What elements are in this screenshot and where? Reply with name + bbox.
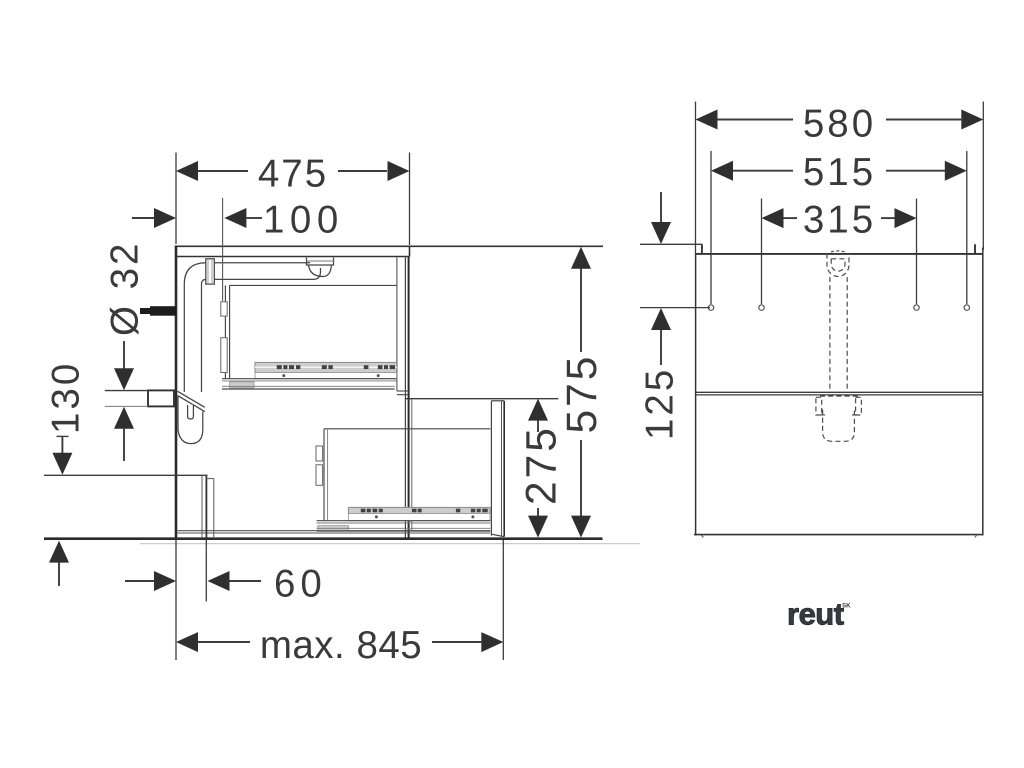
cabinet left wall [175, 246, 178, 540]
bottom connection box [202, 475, 214, 538]
svg-text:475: 475 [258, 153, 328, 196]
svg-text:515: 515 [803, 151, 876, 194]
pipe stub through wall [105, 391, 148, 407]
upper drawer bottom [222, 379, 397, 389]
lower drawer rail lower band [348, 514, 490, 521]
dim 100 outside arrow [132, 208, 176, 228]
horizontal drain pipe under counter [215, 263, 321, 280]
counter top line [176, 245, 603, 247]
upper drawer rail lower band [255, 373, 397, 379]
basin top reference line [640, 243, 703, 245]
front view top edge [696, 253, 984, 255]
dim 580 extension lines [696, 102, 984, 255]
svg-text:SK: SK [842, 603, 851, 610]
siphon inlet outer U [827, 254, 849, 277]
svg-text:315: 315 [803, 198, 876, 241]
svg-text:130: 130 [45, 361, 88, 434]
svg-text:60: 60 [274, 563, 327, 606]
trap connector slant [178, 391, 205, 411]
dim 475 extension lines [176, 153, 410, 246]
sink tailpiece fitting [307, 258, 334, 277]
drawer divider lines [696, 392, 983, 395]
dim 130 upper arrow [52, 436, 72, 474]
front view left edge [695, 254, 697, 536]
logo reut [787, 597, 851, 632]
upper drawer back clips [221, 302, 227, 373]
trap cup [178, 396, 203, 444]
dim Ø32 text [104, 241, 147, 336]
dim 125 lower arrow [651, 308, 671, 365]
carcass inner face below gap [411, 399, 413, 530]
dim 475 text [258, 153, 328, 196]
dim Ø32 arrows [114, 341, 134, 461]
dim 130 text [45, 361, 88, 434]
lower drawer back bracket [316, 446, 323, 485]
lower drawer box outline [324, 429, 490, 521]
siphon cup [823, 410, 855, 442]
dim 515 extension lines [711, 151, 967, 304]
dim 315 text [803, 198, 876, 241]
dim max845 text [260, 624, 422, 667]
svg-text:max. 845: max. 845 [260, 624, 422, 667]
front view right edge [982, 248, 984, 536]
dim 275 line and arrows [528, 399, 548, 538]
siphon inlet inner U [831, 259, 845, 271]
lower drawer bottom [317, 521, 491, 531]
dim max845 line and arrows [176, 632, 503, 652]
wall grommet box [148, 390, 174, 406]
dim 100 extension line [222, 198, 224, 301]
lower drawer front panel [491, 401, 504, 537]
dim 100 arrow and text [224, 199, 343, 242]
siphon vertical pipe [830, 277, 847, 392]
counter slab bottom [176, 246, 410, 256]
drawer gap lines [397, 391, 410, 395]
dim 125 lower reference line [640, 307, 710, 309]
trap knob [188, 405, 194, 420]
dim 580 text [803, 103, 876, 146]
dim 580 line and arrows [696, 110, 984, 130]
upper drawer slide rail [255, 362, 397, 372]
svg-text:580: 580 [803, 103, 876, 146]
cabinet bottom thick line [44, 537, 603, 540]
svg-text:275: 275 [519, 425, 566, 505]
dim 60 extension lines [176, 540, 206, 660]
dim max845 extension line right [502, 540, 504, 660]
basin rim ticks [702, 244, 975, 254]
dim 575 line and arrows [571, 247, 591, 538]
carcass front edge double line [405, 257, 408, 539]
svg-text:Ø 32: Ø 32 [104, 241, 147, 336]
dim 475 line and arrows [176, 161, 410, 181]
lower drawer slide rail [348, 507, 490, 513]
dim 315 extension lines [762, 199, 917, 305]
svg-text:100: 100 [263, 199, 344, 242]
svg-text:125: 125 [639, 367, 682, 440]
dim 60 arrow and text [208, 563, 327, 606]
front view bottom edge [694, 535, 982, 538]
siphon inlet top bump [831, 251, 845, 252]
upper drawer box outline [225, 285, 396, 378]
cabinet bottom panel lines [178, 531, 491, 533]
pipe sleeve connector [206, 259, 215, 284]
dim 125 text [639, 367, 682, 440]
svg-text:reut: reut [787, 597, 844, 632]
vertical drain pipe [184, 284, 201, 392]
svg-text:575: 575 [559, 354, 606, 434]
dim 125 upper arrow [651, 192, 671, 244]
dim 275 text [519, 425, 566, 505]
dim 315 line and arrows [762, 208, 917, 228]
dim 515 line and arrows [711, 161, 967, 181]
black wall fitting [140, 306, 176, 316]
dim 130 reference line [44, 474, 208, 476]
pipe elbow [184, 263, 206, 284]
siphon union nut [816, 396, 861, 415]
floor shadow faint line [140, 543, 640, 545]
dim 575 text [559, 354, 606, 434]
dim 130 lower arrow [49, 541, 69, 586]
dim 515 text [803, 151, 876, 194]
275 reference line over open drawer [405, 398, 558, 400]
dim 60 outside arrow [125, 571, 176, 591]
mounting holes [708, 305, 969, 310]
upper drawer front inner face [396, 257, 398, 391]
